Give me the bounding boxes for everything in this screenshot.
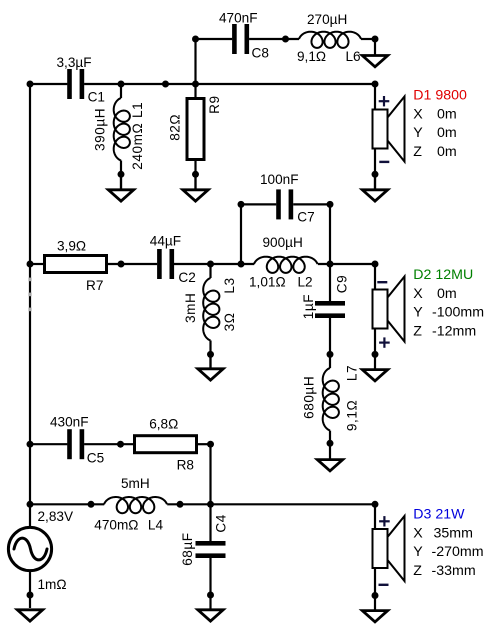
svg-text:0m: 0m [437,106,457,122]
capacitor C5 plates [67,429,84,459]
svg-text:L4: L4 [148,518,164,533]
polarity - D3 [379,584,389,586]
svg-text:Y: Y [413,544,423,560]
svg-text:C1: C1 [88,90,105,105]
node input/top-rail [27,81,34,88]
ground D3 [362,611,387,622]
svg-text:Z: Z [413,144,422,160]
svg-text:9,1Ω: 9,1Ω [344,400,359,431]
node C5-R8 joint [117,441,124,448]
node top rail joint [162,81,169,88]
node C7/L2 left [238,261,245,268]
svg-text:L7: L7 [344,365,359,381]
ground source [17,610,42,621]
svg-text:C7: C7 [297,210,314,225]
capacitor C1 plates [67,69,84,99]
node mid rail tap [27,261,34,268]
wire D2 bottom lead [374,328,376,369]
capacitor C4 plates [196,541,226,558]
wire C9 top lead [329,264,331,301]
wire C2 to L2 [174,263,254,265]
node D3 tap [372,501,379,508]
svg-text:X: X [413,286,423,302]
polarity + D3 [379,516,390,526]
svg-text:R9: R9 [207,95,222,113]
wire R9 ground stem [194,174,196,188]
svg-text:0m: 0m [437,144,457,160]
svg-text:L2: L2 [298,275,313,290]
node L1 bottom [118,171,125,178]
node D1 tap [372,81,379,88]
svg-text:430nF: 430nF [50,415,89,430]
wire C8 to L6 [249,38,299,40]
node bottom rail tap [27,501,34,508]
svg-text:240mΩ: 240mΩ [130,123,145,170]
node source minus [27,592,34,599]
svg-text:0m: 0m [437,125,457,141]
wire mid rail to R7 [30,263,45,265]
resistor R9 body [187,99,204,160]
svg-text:470mΩ: 470mΩ [94,518,138,533]
inductor L6 coil [299,32,361,48]
svg-text:1mΩ: 1mΩ [38,577,67,592]
wire C5 row left [30,443,67,445]
node C7 left [238,201,245,208]
node D3 minus [372,592,379,599]
svg-text:Y: Y [413,125,423,141]
wire R8 branch down [209,444,211,504]
svg-text:390µH: 390µH [92,108,107,151]
svg-text:9,1Ω: 9,1Ω [297,49,326,64]
wire D1 bottom lead [374,148,376,189]
wire L3 top lead [209,264,211,278]
wire segment marks (grey dashes on input rail) [28,278,31,312]
ground L3 [198,369,223,380]
svg-text:1µF: 1µF [301,294,316,319]
wire L6 ground stem [374,39,376,55]
node L6 right pin [372,36,379,43]
wire L1 bottom lead [120,161,122,189]
svg-text:D2 12MU: D2 12MU [413,267,473,283]
wire C4 ground stem [209,595,211,609]
wire C7 right branch [329,204,331,264]
wire C9 bottom lead [329,318,331,355]
wire L1 ground stem [120,174,122,188]
wire branch up to C8 [194,39,196,84]
svg-text:470nF: 470nF [219,10,258,25]
node C4 bottom [207,592,214,599]
ground L1 [108,190,133,201]
wire bottom rail to L4 [30,503,104,505]
ground L7 [317,460,342,471]
wire C7 row right [293,203,330,205]
svg-text:6,8Ω: 6,8Ω [149,417,178,432]
svg-text:L6: L6 [346,49,361,64]
wire L3 ground stem [209,354,211,368]
svg-text:3,9Ω: 3,9Ω [57,238,86,253]
wire L1 top lead [120,84,122,98]
svg-text:5mH: 5mH [121,476,150,491]
wire D3 ground stem [374,595,376,610]
node L3 bottom [207,351,214,358]
svg-text:L3: L3 [222,277,237,293]
svg-text:-33mm: -33mm [432,563,476,579]
node R7-C2 joint [118,261,125,268]
svg-text:X: X [413,525,423,541]
wire top rail C1 to D1 [84,83,375,85]
svg-text:35mm: 35mm [434,525,473,541]
wire L3 bottom lead [209,341,211,369]
wire C7 row left [241,203,276,205]
wire D1 top lead [374,84,376,110]
svg-text:Y: Y [413,305,423,321]
node D2 tap [372,261,379,268]
wire C4 top lead [209,504,211,541]
svg-text:C8: C8 [252,45,269,60]
wire D1 ground stem [374,174,376,188]
wire R9 bottom lead [194,160,196,189]
node L3 tap [207,261,214,268]
wire L7 top lead [329,354,331,368]
wire source to ground [29,572,31,609]
ground D1 [362,190,387,201]
resistor R7 body [45,256,107,273]
wire L2 to D2 [318,263,375,265]
polarity + D1 [379,96,390,106]
node L7 bottom [327,440,334,447]
svg-text:2,83V: 2,83V [38,509,74,524]
ground C4 [198,610,223,621]
inductor L4 coil [104,497,167,513]
svg-text:270µH: 270µH [307,12,347,27]
wire L4 to D3 [167,503,375,505]
signal source V1 [8,527,51,570]
svg-text:100nF: 100nF [260,172,299,187]
svg-text:C4: C4 [214,514,229,532]
speaker driver D3 body [373,516,405,581]
svg-text:Z: Z [413,323,422,339]
wire C8 row left [196,38,233,40]
svg-text:68µF: 68µF [180,532,195,565]
node C9-L7 [327,351,334,358]
wire C7 left branch [240,204,242,264]
wire R7 to C2 [107,263,158,265]
wire R9 top lead [194,84,196,99]
node D2 plus [372,351,379,358]
svg-text:3,3µF: 3,3µF [57,55,92,70]
wire left source rail (input bus) [29,84,31,527]
svg-text:Z: Z [413,563,422,579]
node C5 tap [27,441,34,448]
svg-text:0m: 0m [437,286,457,302]
svg-text:82Ω: 82Ω [168,114,183,141]
svg-text:680µH: 680µH [301,376,316,419]
node C8 left [192,36,199,43]
node C7 right [327,201,334,208]
node L4 left pin [88,501,95,508]
ground L6 notch [362,56,387,67]
node C4 cross [207,501,214,508]
ground R9 [183,190,208,201]
node L2/C7/C9 cross [327,261,334,268]
svg-text:1,01Ω: 1,01Ω [249,275,286,290]
inductor L7 coil [323,368,339,431]
svg-text:3mH: 3mH [183,293,198,323]
svg-text:R7: R7 [86,278,103,293]
svg-text:900µH: 900µH [263,235,303,250]
node L4 right pin [177,501,184,508]
polarity - D2 [377,281,387,283]
capacitor C2 plates [157,249,174,279]
svg-text:C5: C5 [87,451,104,466]
inductor L3 coil [203,278,219,341]
wire D3 bottom lead [374,568,376,595]
resistor R8 body [135,436,197,453]
svg-text:X: X [413,106,423,122]
capacitor C8 plates [232,24,249,54]
polarity - D1 [379,161,389,163]
speaker driver D1 body [373,97,405,162]
node C1-L1 [118,81,125,88]
wire top rail to C1 [30,83,67,85]
polarity + D2 [379,337,390,347]
wire C5 to R8 [84,443,134,445]
svg-text:D1 9800: D1 9800 [413,88,467,104]
svg-text:R8: R8 [177,458,194,473]
node D1 minus [372,171,379,178]
capacitor C9 plates [315,301,345,318]
node R9 bottom [192,171,199,178]
capacitor C7 plates [276,189,293,219]
node L6 left pin [282,36,289,43]
svg-text:44µF: 44µF [150,234,181,249]
svg-text:C9: C9 [334,275,349,293]
inductor L1 coil [114,98,130,161]
wire D3 top lead [374,504,376,529]
svg-text:-12mm: -12mm [432,323,476,339]
svg-text:D3 21W: D3 21W [413,507,465,523]
wire C4 bottom lead [209,558,211,595]
wire L6 to notch ground [361,38,375,40]
wire L7 bottom lead [329,431,331,459]
svg-text:C2: C2 [178,270,195,285]
svg-text:-100mm: -100mm [432,305,484,321]
ground D2 [362,370,387,381]
inductor L2 coil [254,257,318,273]
svg-text:L1: L1 [130,102,145,118]
wire D2 top lead [374,264,376,290]
svg-text:-270mm: -270mm [432,544,484,560]
node R9/C8 tap [192,81,199,88]
wire R8 to corner [197,443,211,445]
node R8 out [207,441,214,448]
speaker driver D2 body [373,277,405,342]
svg-text:3Ω: 3Ω [222,313,237,332]
